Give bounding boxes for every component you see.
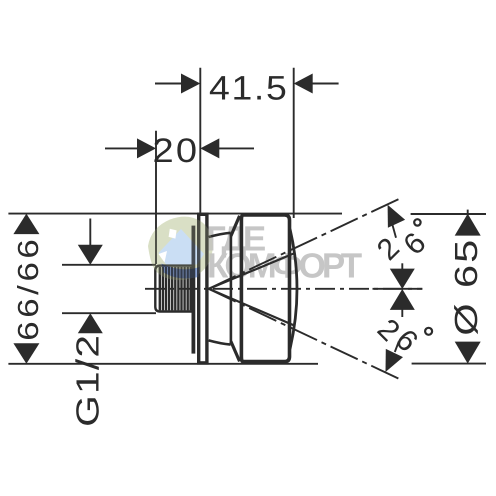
spray head body xyxy=(241,215,289,362)
seal plate xyxy=(192,226,196,354)
arrow 20 left xyxy=(137,138,156,158)
collar diagonal top xyxy=(231,216,240,236)
arrow G1/2 lower(up) xyxy=(78,313,103,333)
watermark logo under-layer xyxy=(148,217,213,281)
stem G1/2 upper arrow xyxy=(89,219,91,246)
thread hatch xyxy=(160,267,191,311)
arrow dia65 up xyxy=(455,214,481,236)
extension line plate-front x=200.3 xyxy=(199,68,201,213)
arrow dia65 down xyxy=(455,342,481,364)
leader 26deg lower arrow xyxy=(395,342,399,353)
watermark logo over-layer xyxy=(148,217,213,281)
svg-text:G1/2: G1/2 xyxy=(70,334,106,427)
cone line lower xyxy=(209,289,294,326)
extension line spray-face x=293.7 xyxy=(293,68,295,218)
bottom reference line xyxy=(8,363,486,365)
arrow 66/66 down xyxy=(13,343,39,364)
arrow 20 right xyxy=(200,138,219,158)
dimension line 20 xyxy=(105,147,254,149)
leader 26deg upper arrow xyxy=(393,225,397,238)
arrow 26deg upper angled xyxy=(388,205,406,228)
stem 26deg bowtie lower xyxy=(401,310,403,318)
arrow 41.5 right xyxy=(294,74,313,94)
collar diagonal bottom xyxy=(231,341,240,361)
svg-text:66/66: 66/66 xyxy=(13,236,45,341)
svg-text:20: 20 xyxy=(153,132,200,170)
arrow G1/2 upper(down) xyxy=(78,245,103,265)
thread G1/2 outline xyxy=(155,266,192,312)
arrow bowtie upper(down) xyxy=(390,269,415,289)
stem 26deg bowtie upper xyxy=(401,263,403,269)
tick thread top xyxy=(62,264,156,266)
svg-text:41.5: 41.5 xyxy=(209,70,288,108)
arrow 66/66 up xyxy=(13,214,39,235)
centerline axis dash-dot xyxy=(145,288,422,290)
cone line upper xyxy=(209,253,294,288)
dimension line 41.5 xyxy=(155,83,339,85)
centerline solid at bowtie xyxy=(373,288,423,290)
degree circle upper xyxy=(414,219,420,225)
arrow 26deg lower angled xyxy=(386,349,404,372)
spray face bulge xyxy=(290,229,297,349)
neck bottom edge xyxy=(209,340,231,344)
top reference line xyxy=(8,213,486,215)
wall plate xyxy=(199,214,207,363)
tick thread bottom xyxy=(62,312,156,314)
stub dia65 top xyxy=(467,210,469,214)
diagonal 26deg upper dash-dot xyxy=(209,197,403,288)
diagonal 26deg lower dash-dot xyxy=(209,289,402,380)
arrow bowtie lower(up) xyxy=(390,289,415,310)
svg-text:Ø 65: Ø 65 xyxy=(448,238,484,336)
neck right edge xyxy=(230,233,233,344)
extension line thread-tip x=156 xyxy=(155,131,157,264)
neck top edge xyxy=(209,233,231,237)
arrow 41.5 left xyxy=(181,74,200,94)
degree circle lower xyxy=(425,328,432,335)
